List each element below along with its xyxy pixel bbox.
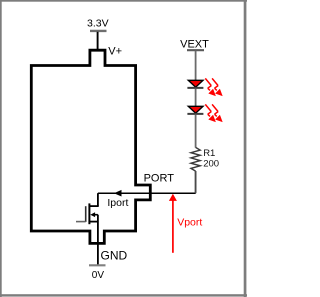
body arrow (94, 214, 98, 216)
svg-text:V+: V+ (108, 45, 122, 57)
svg-text:0V: 0V (92, 270, 105, 281)
LED D2 light arrows (205, 104, 221, 121)
Iport current arrow (114, 190, 122, 197)
source vertical down to ground (97, 215, 99, 266)
wire VEXT to LED1 anode (195, 51, 197, 80)
border frame (0, 0, 247, 297)
wire LED1 cathode to LED2 anode (195, 89, 197, 106)
svg-text:200: 200 (203, 158, 219, 169)
source stub (89, 221, 98, 223)
svg-text:GND: GND (101, 248, 128, 262)
channel (88, 203, 90, 224)
3.3V supply rail bar (90, 30, 107, 32)
node PORT wire (98, 192, 196, 194)
svg-text:VEXT: VEXT (180, 38, 209, 50)
wire 3.3V to V+ pin (97, 32, 99, 50)
svg-text:3.3V: 3.3V (87, 18, 109, 30)
LED D2 (187, 106, 203, 114)
IC box U1 outline with V+ / GND / PORT pin bumps (31, 50, 150, 243)
transistor Q1 (NMOS inside box) (76, 193, 99, 265)
drain stub (89, 205, 98, 207)
gate plate (85, 206, 87, 222)
wire LED2 cathode to R1 (195, 115, 197, 148)
Vport red arrow (169, 194, 177, 253)
gate lead (76, 221, 86, 223)
drain vertical (97, 193, 99, 206)
wire R1 bottom to PORT node (195, 171, 197, 192)
LED D1 (187, 80, 203, 88)
svg-text:Iport: Iport (107, 197, 128, 209)
ground bar 0V (89, 264, 106, 266)
svg-text:PORT: PORT (144, 172, 175, 184)
resistor R1 zigzag (191, 147, 200, 171)
VEXT supply rail bar (187, 49, 204, 51)
svg-text:Vport: Vport (177, 216, 202, 228)
LED D1 light arrows (205, 78, 221, 95)
